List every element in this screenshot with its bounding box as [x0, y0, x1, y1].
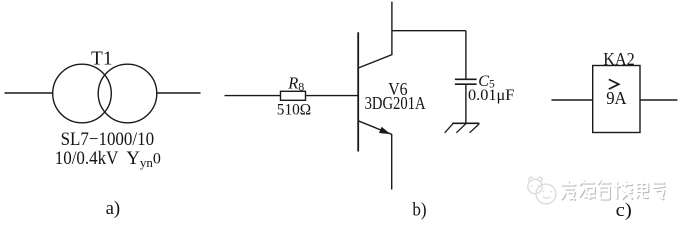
- svg-text:a): a): [106, 198, 121, 219]
- svg-text:KA2: KA2: [603, 49, 635, 69]
- svg-text:0.01μF: 0.01μF: [468, 87, 514, 104]
- svg-text:c): c): [616, 200, 632, 221]
- svg-text:SL7−1000/10: SL7−1000/10: [61, 129, 155, 150]
- wire: C5 bottom lead: [465, 84, 467, 123]
- ground hatch 2: [456, 124, 466, 133]
- svg-text:9A: 9A: [606, 88, 626, 108]
- transformer T1 primary winding circle: [53, 64, 112, 123]
- wire: KA2 right lead: [640, 99, 677, 101]
- svg-text:b): b): [412, 200, 426, 221]
- relay KA2 box: [593, 66, 640, 133]
- wire: KA2 left lead: [552, 99, 593, 101]
- capacitor C5 bottom plate: [455, 83, 477, 85]
- svg-text:3DG201A: 3DG201A: [365, 93, 427, 113]
- watermark logo icon: [528, 177, 556, 204]
- wire: T1 right lead: [157, 92, 201, 94]
- transformer T1 secondary winding circle: [98, 64, 157, 123]
- resistor R8 body: [281, 91, 306, 100]
- wire: collector node to C5: [392, 30, 466, 32]
- ground hatch 1: [470, 124, 480, 133]
- wire: R8 to base: [306, 95, 359, 97]
- wire: T1 left lead: [5, 92, 53, 94]
- capacitor C5 top plate: [455, 78, 477, 80]
- ground hatch 3: [445, 124, 453, 133]
- ground bar: [452, 122, 479, 124]
- transistor V6 emitter: [358, 121, 392, 190]
- wire: C5 top lead: [465, 31, 467, 79]
- wire: base input lead: [225, 95, 281, 97]
- transistor V6 base bar: [357, 32, 359, 151]
- emitter arrowhead: [379, 127, 391, 134]
- symbol greater-than: [609, 79, 619, 89]
- svg-text:T1: T1: [91, 49, 113, 70]
- svg-text:510Ω: 510Ω: [277, 101, 311, 118]
- transistor V6 collector: [358, 2, 392, 68]
